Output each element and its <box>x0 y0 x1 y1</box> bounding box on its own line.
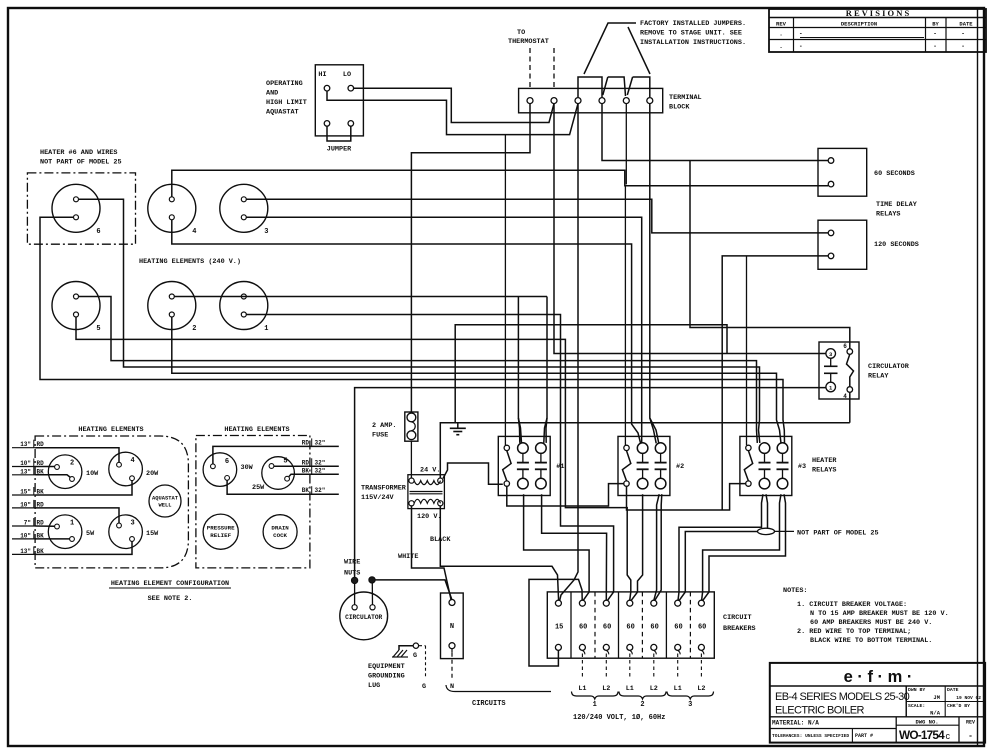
svg-text:7": 7" <box>24 520 31 527</box>
svg-text:GROUNDING: GROUNDING <box>368 673 405 681</box>
svg-text:2: 2 <box>192 325 196 333</box>
svg-text:3: 3 <box>688 701 692 709</box>
svg-text:HEATER #6 AND WIRES: HEATER #6 AND WIRES <box>40 149 118 157</box>
factory jumper staple t5-t6 <box>633 77 650 97</box>
breaker 4 bottom terminal <box>627 644 633 650</box>
svg-text:3: 3 <box>130 520 134 528</box>
terminal block terminal 6 <box>647 98 653 104</box>
jumper callout line left <box>584 23 636 74</box>
svg-text:DRAIN: DRAIN <box>271 525 289 532</box>
breaker solid divider <box>570 592 572 658</box>
revisions title row line <box>769 17 986 19</box>
inner right border line <box>977 8 979 746</box>
svg-text:1: 1 <box>70 520 74 528</box>
breaker 3 bottom terminal <box>603 644 609 650</box>
wire 24V right to relay coil chain <box>443 463 503 484</box>
svg-text:CIRCULATOR: CIRCULATOR <box>868 363 910 371</box>
svg-text:WHITE: WHITE <box>398 553 418 561</box>
wire white transformer to N box <box>412 506 452 600</box>
svg-text:6: 6 <box>225 458 229 466</box>
svg-text:DATE: DATE <box>947 687 959 693</box>
N box top terminal <box>449 600 455 606</box>
svg-text:6: 6 <box>96 228 100 236</box>
svg-text:AQUASTAT: AQUASTAT <box>266 109 299 117</box>
revisions header row line <box>769 27 986 29</box>
svg-text:WELL: WELL <box>159 503 172 509</box>
wire heater5 top to relay3 left lead <box>79 297 758 443</box>
heater relay #2 coil top terminal <box>624 445 629 450</box>
breaker 5 bottom hook and dashed lead <box>654 650 657 654</box>
svg-text:-: - <box>961 31 965 38</box>
breaker dashed divider <box>594 592 596 658</box>
svg-text:DESCRIPTION: DESCRIPTION <box>841 21 877 28</box>
60s relay terminal top <box>828 158 834 164</box>
heating element 5 circle <box>52 282 100 330</box>
wire relay3 bottom left pair to breaker 6 <box>678 494 763 600</box>
svg-text:JM: JM <box>933 694 940 701</box>
svg-text:G: G <box>413 652 417 660</box>
svg-text:.: . <box>779 31 783 38</box>
svg-text:LO: LO <box>343 71 351 79</box>
svg-text:REV: REV <box>776 21 787 28</box>
svg-text:JUMPER: JUMPER <box>327 146 352 154</box>
config element 1 circle <box>48 515 82 549</box>
svg-text:15: 15 <box>555 624 563 632</box>
breaker 2 top terminal <box>579 600 585 606</box>
element wire stub 13" BK <box>12 474 35 476</box>
heating element 3 circle <box>220 184 268 232</box>
svg-text:120 V.: 120 V. <box>417 513 441 521</box>
svg-text:FACTORY INSTALLED JUMPERS.: FACTORY INSTALLED JUMPERS. <box>640 20 746 28</box>
svg-text:BLACK WIRE TO BOTTOM TERMINAL.: BLACK WIRE TO BOTTOM TERMINAL. <box>810 637 932 645</box>
svg-text:TO: TO <box>517 29 525 37</box>
svg-text:2 AMP.: 2 AMP. <box>372 422 396 430</box>
config element 5 circle <box>262 457 295 490</box>
wire HI to terminal 3 <box>327 91 578 135</box>
svg-text:-: - <box>961 43 965 50</box>
wire circulator neutral to N box <box>375 580 452 600</box>
svg-text:TOLERANCES: UNLESS SPECIFIED: TOLERANCES: UNLESS SPECIFIED <box>772 733 849 739</box>
svg-text:N TO 15 AMP BREAKER MUST BE 12: N TO 15 AMP BREAKER MUST BE 120 V. <box>810 610 949 618</box>
wire relay2 coil bottom to relay3 coil bottom <box>627 484 746 510</box>
svg-text:NOT PART OF MODEL 25: NOT PART OF MODEL 25 <box>797 530 879 538</box>
svg-text:BREAKERS: BREAKERS <box>723 625 756 633</box>
title block tolerances row <box>770 728 896 730</box>
svg-text:L2: L2 <box>697 685 705 693</box>
svg-text:20W: 20W <box>146 470 159 478</box>
svg-text:1: 1 <box>593 701 597 709</box>
svg-text:EB-4 SERIES MODELS 25-30: EB-4 SERIES MODELS 25-30 <box>775 691 910 703</box>
svg-text:CIRCULATOR: CIRCULATOR <box>345 614 382 621</box>
circulator terminal right <box>370 605 375 610</box>
svg-text:L2: L2 <box>602 685 610 693</box>
wire transformer 24V right to ground bus <box>440 423 850 478</box>
revisions column BY divider <box>925 18 927 53</box>
wire terminal 1 to fuse <box>411 104 530 412</box>
circulator relay box <box>819 342 859 399</box>
svg-text:25W: 25W <box>252 484 265 492</box>
aquastat terminal HI <box>324 85 330 91</box>
circ relay contact pin 4 <box>847 387 853 393</box>
wire terminal 6 to relay2 right top fork <box>650 104 659 443</box>
transformer primary winding <box>414 499 440 503</box>
element wire stub 13" RD <box>12 447 35 449</box>
svg-text:AND: AND <box>266 90 278 98</box>
config element 2 circle <box>48 455 82 489</box>
time delay relay 120 seconds box <box>818 220 867 269</box>
heater relay #3 contact pole 1 <box>759 443 770 454</box>
circ relay contact blade <box>847 354 854 386</box>
circulator circle <box>340 592 388 640</box>
svg-text:60 AMP BREAKERS MUST BE 240 V.: 60 AMP BREAKERS MUST BE 240 V. <box>810 619 932 627</box>
transformer terminal 24V right <box>438 478 443 483</box>
heating element 6 circle <box>52 184 100 232</box>
svg-text:60: 60 <box>698 624 706 632</box>
breaker 1 bottom terminal <box>555 644 561 650</box>
wire black transformer to breaker 1 <box>440 506 558 601</box>
revisions row line 1 <box>769 39 986 41</box>
element wire stub 10" RD <box>12 466 35 468</box>
60s relay terminal bottom <box>828 181 834 187</box>
wire relay1 coil top to thermostat line <box>504 135 506 446</box>
wire terminal2 to circulator relay coil 3 <box>554 104 826 354</box>
wire heater6 top to relay3 left second lead <box>79 199 760 443</box>
svg-text:e · f · m ·: e · f · m · <box>844 668 913 686</box>
svg-text:5: 5 <box>96 325 100 333</box>
wire heater6 bottom to bundle lowest <box>40 217 785 443</box>
transformer terminal 24V left <box>409 478 414 483</box>
breaker 7 top terminal <box>698 600 704 606</box>
svg-text:BK: BK <box>302 467 310 474</box>
svg-text:TRANSFORMER: TRANSFORMER <box>361 485 407 493</box>
svg-text:OPERATING: OPERATING <box>266 80 303 88</box>
svg-text:G: G <box>422 683 426 691</box>
heater relay #2 contact pole 2 <box>655 443 666 454</box>
element wire stub 7" RD <box>12 525 35 527</box>
equipment grounding lug symbol <box>413 643 418 648</box>
svg-text:MATERIAL: N/A: MATERIAL: N/A <box>772 720 819 727</box>
svg-text:60: 60 <box>603 624 611 632</box>
wire h2 bottom to relay3 right lead <box>172 317 781 443</box>
revisions table frame <box>769 9 986 52</box>
120s relay terminal top <box>828 230 834 236</box>
svg-text:HI: HI <box>318 71 326 79</box>
fuse link curve <box>411 422 415 431</box>
svg-text:DWG NO.: DWG NO. <box>915 719 938 726</box>
dashed ground wire <box>419 645 426 647</box>
revisions row1 rule <box>800 37 924 39</box>
svg-text:CIRCUITS: CIRCUITS <box>472 700 506 708</box>
aquastat terminal LO <box>348 85 354 91</box>
svg-text:6: 6 <box>843 343 847 350</box>
wire breaker1 bottom loop to breaker 2 <box>529 579 582 666</box>
circ relay coil bars <box>830 358 832 366</box>
element wire stub 10" RD <box>12 507 35 509</box>
svg-text:32": 32" <box>315 439 326 446</box>
svg-text:BY: BY <box>932 21 939 28</box>
wire terminal 3 down to breaker 1 <box>560 104 578 601</box>
heater relay #3 box <box>740 436 792 495</box>
svg-text:c: c <box>946 731 951 741</box>
wire relay3 bottom right pair to breaker 7 <box>702 494 781 600</box>
terminal block terminal 5 <box>623 98 629 104</box>
svg-text:10W: 10W <box>86 470 99 478</box>
transformer core lines <box>410 491 443 493</box>
breaker solid divider <box>665 592 667 658</box>
circ relay contact pin 6 <box>847 349 853 355</box>
svg-text:10": 10" <box>20 501 31 508</box>
factory jumper staple t3-t4 <box>578 77 602 97</box>
svg-text:HEATER: HEATER <box>812 457 837 465</box>
heater relay #3 coil zigzag <box>744 451 752 481</box>
wire relay1 bottom right to breaker 3 step <box>542 494 607 600</box>
svg-text:13": 13" <box>20 441 31 448</box>
config element 3 circle <box>109 515 143 549</box>
wire relay2 bottom left to breaker 4 second <box>631 494 642 600</box>
breaker 6 bottom terminal <box>675 644 681 650</box>
svg-text:4: 4 <box>843 393 847 400</box>
svg-text:PRESSURE: PRESSURE <box>207 525 235 532</box>
svg-text:5: 5 <box>283 458 287 466</box>
aquastat bottom terminal right <box>348 121 354 127</box>
svg-text:2: 2 <box>70 460 74 468</box>
svg-text:SCALE:: SCALE: <box>908 703 925 709</box>
wire heater4 bottom to relay2 left feed <box>172 220 641 443</box>
svg-text:60: 60 <box>674 624 682 632</box>
wire thermostat hot to circ relay pin6 <box>690 161 850 349</box>
wire heater5 bottom to bundle <box>76 317 631 600</box>
fuse top circle <box>407 413 416 422</box>
wire relay1 bottom left to breaker 2 step <box>524 494 590 600</box>
wire 24V common line <box>455 325 727 423</box>
revisions column REV divider <box>793 18 795 53</box>
svg-text:BLOCK: BLOCK <box>669 104 690 112</box>
terminal block terminal 1 <box>527 98 533 104</box>
svg-text:HEATING ELEMENTS: HEATING ELEMENTS <box>224 426 289 434</box>
dashed box heater 6 not part of model 25 <box>27 173 135 244</box>
breaker 7 bottom hook and dashed lead <box>701 650 704 654</box>
breaker 3 top terminal <box>603 600 609 606</box>
terminal block terminal 3 <box>575 98 581 104</box>
fuse 2 amp box <box>405 412 418 441</box>
config element 4 circle <box>109 452 143 486</box>
svg-text:L2: L2 <box>650 685 658 693</box>
element wire stub 15" BK <box>12 494 35 496</box>
breaker 7 bottom terminal <box>698 644 704 650</box>
aquastat well circle <box>149 485 181 517</box>
svg-text:SEE NOTE 2.: SEE NOTE 2. <box>148 595 193 603</box>
svg-text:PART #: PART # <box>855 733 873 739</box>
brace circuit 1 <box>572 692 619 700</box>
heater relay #3 contact pole 2 <box>777 443 788 454</box>
heater relay #2 contact pole 1 <box>637 443 648 454</box>
svg-text:60 SECONDS: 60 SECONDS <box>874 170 915 178</box>
svg-text:THERMOSTAT: THERMOSTAT <box>508 38 549 46</box>
element wire stub 10" BK <box>12 538 35 540</box>
wire relay2 coil top to 60s line <box>624 186 626 446</box>
wire nut to circulator left <box>354 584 356 605</box>
svg-text:NOTES:: NOTES: <box>783 587 807 595</box>
N box bottom terminal <box>449 643 455 649</box>
breaker 2 bottom hook and dashed lead <box>582 650 585 654</box>
svg-text:L1: L1 <box>626 685 634 693</box>
svg-text:HEATING ELEMENTS (240 V.): HEATING ELEMENTS (240 V.) <box>139 258 241 266</box>
120s relay terminal bottom <box>828 253 834 259</box>
svg-text:120/240 VOLT, 1Ø, 60Hz: 120/240 VOLT, 1Ø, 60Hz <box>573 713 665 722</box>
terminal block box <box>519 88 663 112</box>
svg-text:EQUIPMENT: EQUIPMENT <box>368 663 405 671</box>
svg-text:REMOVE TO STAGE UNIT. SEE: REMOVE TO STAGE UNIT. SEE <box>640 30 742 38</box>
svg-text:L1: L1 <box>674 685 682 693</box>
heater relay #1 contact pole 1 <box>518 443 529 454</box>
breaker 1 top terminal <box>555 600 561 606</box>
svg-text:DATE: DATE <box>959 21 973 28</box>
svg-text:10": 10" <box>20 460 31 467</box>
wire fuse to transformer <box>410 441 412 478</box>
heater relay #1 coil bottom terminal <box>504 481 509 486</box>
wire relay3 coil top to 120s line <box>746 256 748 445</box>
wire h1 bottom line to breaker 3 second step <box>246 315 613 601</box>
circuit breaker block <box>547 592 714 658</box>
svg-text:30W: 30W <box>241 464 254 472</box>
breaker 3 bottom hook and dashed lead <box>606 650 609 654</box>
svg-text:24 V.: 24 V. <box>420 467 440 475</box>
svg-text:AQUASTAT: AQUASTAT <box>152 496 179 502</box>
heating element 2 circle <box>148 282 196 330</box>
heater relay #2 coil bottom terminal <box>624 481 629 486</box>
svg-text:#3: #3 <box>798 463 806 471</box>
wire circ relay pin4 to 24V ground bus <box>849 392 851 422</box>
heating element 4 circle <box>148 184 196 232</box>
svg-text:R E V I S I O N S: R E V I S I O N S <box>846 8 910 18</box>
svg-text:#2: #2 <box>676 463 684 471</box>
wire terminal 5 down to 60s bottom line <box>625 104 627 185</box>
svg-text:10": 10" <box>20 532 31 539</box>
svg-text:BK: BK <box>302 487 310 494</box>
title block frame <box>770 663 985 743</box>
svg-text:15W: 15W <box>146 530 159 538</box>
svg-text:15": 15" <box>20 489 31 496</box>
factory jumper staple t4-t5 <box>608 77 626 96</box>
svg-text:1. CIRCUIT BREAKER VOLTAGE:: 1. CIRCUIT BREAKER VOLTAGE: <box>797 601 907 609</box>
heater relay #1 box <box>498 436 550 495</box>
svg-text:1: 1 <box>829 385 833 392</box>
svg-text:L1: L1 <box>578 685 586 693</box>
heater relay #2 box <box>618 436 670 495</box>
brace circuit 2 <box>619 692 666 700</box>
aquastat bottom terminal left <box>324 121 330 127</box>
svg-text:115V/24V: 115V/24V <box>361 494 395 502</box>
breaker 5 top terminal <box>651 600 657 606</box>
svg-text:NUTS: NUTS <box>344 570 360 578</box>
svg-text:ELECTRIC BOILER: ELECTRIC BOILER <box>775 705 864 717</box>
svg-text:.: . <box>779 43 783 50</box>
config element 6 circle <box>203 453 237 487</box>
breaker 4 bottom hook and dashed lead <box>630 650 633 654</box>
brace circuit 3 <box>667 692 714 700</box>
dashed thermostat wire 2 <box>553 48 555 87</box>
wire heater4 top to 60s relay bottom <box>172 170 828 197</box>
wire heater3 bottom to relay2 left top <box>246 217 641 443</box>
svg-text:CIRCUIT: CIRCUIT <box>723 614 752 622</box>
wire heater2 top to relay1 left fork <box>174 296 547 298</box>
wire nut to circulator right <box>371 583 373 605</box>
dashed box heating elements right <box>196 436 310 568</box>
breaker 5 bottom terminal <box>651 644 657 650</box>
circ relay coil terminal 3 <box>826 349 836 359</box>
svg-text:5W: 5W <box>86 530 95 538</box>
svg-text:-: - <box>799 43 803 50</box>
wire nut right dot <box>369 577 375 583</box>
svg-text:INSTALLATION INSTRUCTIONS.: INSTALLATION INSTRUCTIONS. <box>640 39 746 47</box>
element wire stub 13" BK <box>12 553 35 555</box>
wire 120s relay bottom to vertical <box>722 256 828 510</box>
heater relay #1 contact pole 2 <box>536 443 547 454</box>
svg-text:32": 32" <box>315 459 326 466</box>
svg-text:19 NOV 02: 19 NOV 02 <box>956 695 981 701</box>
heater relay #3 coil bottom terminal <box>746 481 751 486</box>
transformer secondary winding <box>414 481 440 485</box>
callout line not part of model 25 <box>775 530 795 532</box>
svg-text:RELAYS: RELAYS <box>876 211 900 219</box>
svg-text:HIGH LIMIT: HIGH LIMIT <box>266 99 307 107</box>
svg-text:-: - <box>933 31 937 38</box>
svg-text:13": 13" <box>20 548 31 555</box>
svg-text:TERMINAL: TERMINAL <box>669 94 702 102</box>
title block dwg no cell <box>895 717 897 743</box>
svg-text:-: - <box>933 43 937 50</box>
breaker 4 top terminal <box>627 600 633 606</box>
wire heater1 top to relay1 right fork <box>544 297 547 443</box>
svg-text:HEATING ELEMENT CONFIGURATION: HEATING ELEMENT CONFIGURATION <box>111 580 229 588</box>
heater relay #1 coil top terminal <box>504 445 509 450</box>
heater relay #1 coil zigzag <box>503 451 511 481</box>
svg-text:N: N <box>450 683 454 691</box>
ground symbol stub <box>457 423 459 429</box>
heater relay #3 coil top terminal <box>746 445 751 450</box>
svg-text:COCK: COCK <box>273 532 287 539</box>
svg-text:32": 32" <box>315 487 326 494</box>
svg-text:1: 1 <box>264 325 268 333</box>
wire LO to terminal 2 <box>354 88 554 122</box>
revisions column DATE divider <box>945 18 947 53</box>
svg-text:-: - <box>968 732 973 741</box>
svg-text:3: 3 <box>829 351 833 358</box>
circulator terminal left <box>352 605 357 610</box>
svg-text:RELAY: RELAY <box>868 373 889 381</box>
wire relay2 bottom right pair to breaker 5 <box>654 494 659 600</box>
title block material row <box>770 716 985 718</box>
neutral N box <box>441 593 464 659</box>
svg-text:32": 32" <box>315 467 326 474</box>
heating element 1 circle <box>220 282 268 330</box>
circ relay coil terminal 1 <box>826 382 836 392</box>
svg-text:4: 4 <box>130 457 134 465</box>
svg-text:13": 13" <box>20 468 31 475</box>
svg-text:LUG: LUG <box>368 682 380 690</box>
svg-text:60: 60 <box>579 624 587 632</box>
svg-text:N: N <box>450 623 454 631</box>
svg-text:N/A: N/A <box>930 710 941 717</box>
svg-text:2. RED WIRE TO TOP TERMINAL;: 2. RED WIRE TO TOP TERMINAL; <box>797 628 911 636</box>
svg-text:BLACK: BLACK <box>430 536 451 544</box>
breaker solid divider <box>618 592 620 658</box>
svg-text:FUSE: FUSE <box>372 432 388 440</box>
title block dwn by cell <box>906 701 985 703</box>
heater relay #2 coil zigzag <box>622 451 630 481</box>
svg-text:HEATING ELEMENTS: HEATING ELEMENTS <box>78 426 143 434</box>
svg-text:NOT PART OF MODEL 25: NOT PART OF MODEL 25 <box>40 159 122 167</box>
